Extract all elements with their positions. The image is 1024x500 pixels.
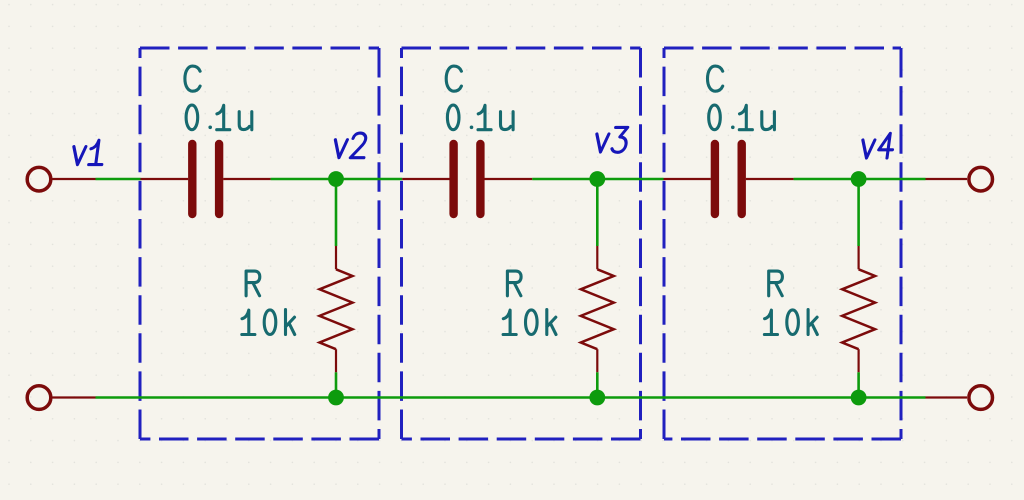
C1 reference label "C" bbox=[185, 66, 200, 91]
R1 reference label "R" bbox=[246, 271, 260, 296]
resistor R1 bbox=[320, 246, 353, 372]
R2 reference label "R" bbox=[507, 271, 521, 296]
dashed box stage 1 bbox=[140, 48, 379, 439]
wire v4 (top rail segment through node v4) bbox=[794, 178, 926, 181]
wire v1 (top rail left segment) bbox=[96, 178, 141, 181]
R3 reference label "R" bbox=[769, 271, 783, 296]
wire bottom rail bbox=[96, 396, 926, 399]
C2 value label "0.1u" bbox=[447, 105, 513, 130]
resistor R2 bbox=[581, 246, 614, 372]
junction at node v2 bbox=[328, 171, 344, 187]
dashed box stage 3 bbox=[664, 48, 901, 439]
C3 reference label "C" bbox=[708, 66, 723, 91]
terminal J2 (bottom left open circle) bbox=[27, 386, 95, 410]
wire v3 (top rail segment through node v3) bbox=[532, 178, 663, 181]
wire R2 top (v3 down to R2) bbox=[596, 179, 599, 246]
capacitor C3 bbox=[664, 144, 794, 214]
resistor R3 bbox=[842, 246, 875, 372]
C1 value label "0.1u" bbox=[186, 105, 252, 130]
junction bottom rail below R3 bbox=[851, 390, 867, 406]
wire v2 (top rail segment through node v2) bbox=[271, 178, 403, 181]
wire R1 bottom (R1 down to bottom rail) bbox=[335, 372, 338, 397]
R1 value label "10k" bbox=[242, 310, 295, 335]
R3 value label "10k" bbox=[764, 310, 817, 335]
wire R3 bottom (R3 down to bottom rail) bbox=[857, 372, 860, 397]
wire R3 top (v4 down to R3) bbox=[857, 179, 860, 246]
junction at node v3 bbox=[589, 171, 605, 187]
dashed box stage 2 bbox=[402, 48, 641, 439]
junction at node v4 bbox=[851, 171, 867, 187]
capacitor C2 bbox=[402, 144, 532, 214]
C3 value label "0.1u" bbox=[709, 105, 775, 130]
capacitor C1 bbox=[141, 144, 271, 214]
wire R1 top (v2 down to R1) bbox=[335, 179, 338, 246]
terminal J1 (top left open circle) bbox=[27, 167, 95, 191]
junction bottom rail below R1 bbox=[328, 390, 344, 406]
node v4 net label bbox=[861, 133, 895, 158]
junction bottom rail below R2 bbox=[589, 390, 605, 406]
node v3 net label bbox=[594, 127, 628, 152]
node v1 net label bbox=[72, 140, 106, 164]
R2 value label "10k" bbox=[503, 310, 556, 335]
terminal J3 (top right open circle) bbox=[926, 167, 993, 191]
node v2 net label bbox=[333, 133, 367, 158]
terminal J4 (bottom right open circle) bbox=[926, 386, 993, 410]
wire R2 bottom (R2 down to bottom rail) bbox=[596, 372, 599, 397]
C2 reference label "C" bbox=[446, 66, 461, 91]
